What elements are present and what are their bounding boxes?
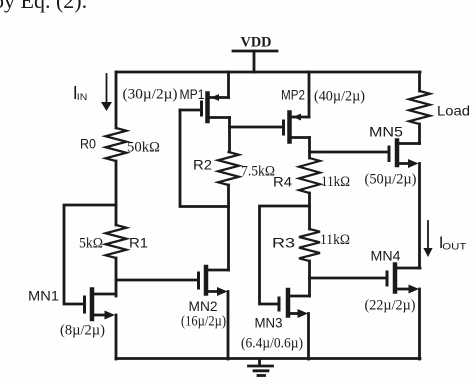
MP1 source arrow bbox=[211, 94, 219, 101]
svg-text:(50µ/2µ): (50µ/2µ) bbox=[365, 172, 417, 188]
node F wire to MN4 gate bbox=[310, 277, 387, 280]
svg-text:(30µ/2µ): (30µ/2µ) bbox=[123, 87, 178, 103]
resistor R1 bbox=[106, 225, 127, 258]
transistor MN3 bbox=[279, 290, 310, 316]
transistor MN1 bbox=[85, 290, 117, 320]
svg-text:R0: R0 bbox=[80, 136, 96, 152]
svg-text:5kΩ: 5kΩ bbox=[79, 236, 103, 252]
resistor R3 bbox=[299, 229, 320, 261]
transistor MP1 bbox=[180, 94, 230, 122]
svg-text:Load: Load bbox=[437, 103, 470, 119]
node D wire to MN5 gate bbox=[310, 151, 389, 154]
VDD supply symbol bbox=[233, 51, 277, 72]
svg-text:R1: R1 bbox=[129, 235, 148, 251]
node B wire to MN2 gate bbox=[116, 279, 197, 282]
node C wire to MP2 gate bbox=[230, 126, 284, 129]
resistor R2 bbox=[218, 152, 239, 185]
wire left rail to R0 bbox=[115, 72, 118, 128]
wire MP2 drain to R4 bbox=[308, 138, 311, 159]
label (30u/2u)MP1 bbox=[123, 86, 205, 103]
wire MP2 source to VDD rail bbox=[308, 72, 311, 117]
MN3 source arrow bbox=[298, 309, 309, 318]
transistor MP2 bbox=[284, 113, 310, 142]
wire Load to MN5 drain bbox=[418, 124, 421, 144]
current arrow IIN bbox=[106, 74, 108, 102]
svg-text:OUT: OUT bbox=[442, 242, 467, 252]
svg-text:50kΩ: 50kΩ bbox=[127, 140, 160, 156]
IOUT arrowhead bbox=[423, 248, 432, 257]
svg-text:(8µ/2µ): (8µ/2µ) bbox=[60, 323, 105, 339]
transistor MN5 bbox=[389, 141, 420, 166]
MP2 source arrow bbox=[293, 114, 301, 121]
ground bbox=[249, 359, 273, 376]
wire R1 to MN1 drain bbox=[115, 258, 118, 296]
svg-text:MP2: MP2 bbox=[281, 87, 305, 103]
label IIN bbox=[73, 83, 88, 103]
wire MN3 source to ground rail bbox=[307, 314, 310, 360]
transistor MN4 bbox=[387, 265, 420, 292]
wire R3 to MN3 drain bbox=[308, 261, 311, 296]
node A branch wire to MN1 gate bbox=[64, 205, 116, 304]
svg-text:R3: R3 bbox=[272, 235, 295, 251]
svg-text:R2: R2 bbox=[193, 157, 212, 173]
MN2 source arrow bbox=[217, 287, 228, 296]
svg-text:IN: IN bbox=[77, 92, 88, 102]
svg-text:(6.4µ/0.6µ): (6.4µ/0.6µ) bbox=[241, 336, 303, 352]
svg-text:7.5kΩ: 7.5kΩ bbox=[241, 164, 275, 180]
svg-text:11kΩ: 11kΩ bbox=[321, 174, 350, 190]
svg-text:by Eq. (2).: by Eq. (2). bbox=[0, 0, 87, 13]
svg-text:MP1: MP1 bbox=[180, 86, 205, 102]
wire right rail VDD to Load bbox=[418, 72, 421, 91]
svg-text:MN5: MN5 bbox=[369, 124, 403, 140]
svg-text:(40µ/2µ): (40µ/2µ) bbox=[314, 89, 365, 105]
svg-text:(22µ/2µ): (22µ/2µ) bbox=[365, 298, 416, 314]
svg-text:MN1: MN1 bbox=[28, 288, 59, 304]
IIN arrowhead bbox=[101, 102, 112, 111]
wire R4 to R3 bbox=[308, 193, 311, 229]
svg-text:11kΩ: 11kΩ bbox=[320, 232, 350, 248]
wire MN1 source to ground rail bbox=[115, 315, 118, 359]
transistor MN2 bbox=[199, 267, 229, 294]
svg-text:MN2: MN2 bbox=[189, 298, 218, 314]
node E branch wire to MN3 gate bbox=[260, 206, 310, 304]
wire bottom ground rail bbox=[116, 357, 420, 360]
wire MP1 source to VDD rail bbox=[227, 72, 230, 98]
svg-text:(16µ/2µ): (16µ/2µ) bbox=[181, 314, 226, 330]
resistor R4 bbox=[299, 158, 320, 193]
label IOUT bbox=[439, 233, 467, 252]
MN4 source arrow bbox=[409, 285, 420, 294]
resistor Load bbox=[409, 91, 430, 124]
wire MP1 gate loop to R2 bottom node bbox=[180, 110, 229, 207]
wire R2 bottom to MN2 drain bbox=[227, 185, 230, 270]
svg-text:MN4: MN4 bbox=[371, 248, 401, 264]
wire MN2 source to ground rail bbox=[227, 292, 230, 360]
svg-text:VDD: VDD bbox=[241, 35, 272, 51]
wire MP1 drain to R2 bbox=[228, 118, 231, 153]
svg-text:MN3: MN3 bbox=[255, 315, 283, 331]
MN5 source arrow bbox=[408, 159, 419, 168]
wire MN5 source to MN4 drain bbox=[418, 164, 421, 269]
wire top VDD rail bbox=[116, 71, 420, 74]
resistor R0 bbox=[106, 128, 127, 161]
wire MN4 source to ground rail bbox=[418, 289, 421, 359]
wire R0 to R1 bbox=[115, 161, 118, 225]
current arrow IOUT bbox=[427, 221, 429, 249]
MN1 source arrow bbox=[105, 311, 116, 320]
svg-text:R4: R4 bbox=[273, 174, 292, 190]
